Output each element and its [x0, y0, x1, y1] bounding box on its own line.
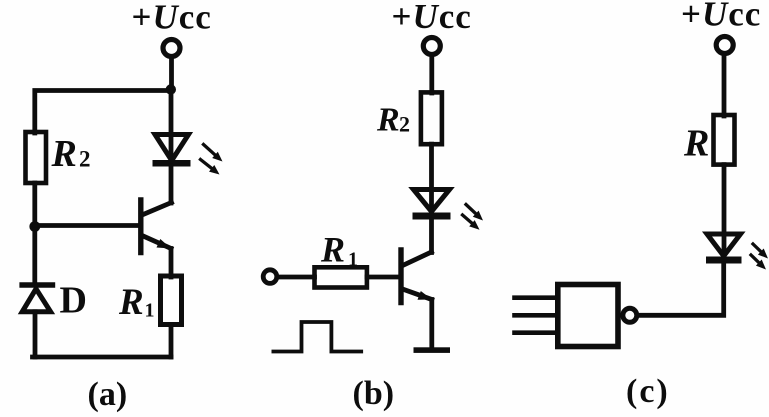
wire top rail (a)	[35, 91, 171, 134]
gate input pin 1 (c)	[515, 295, 558, 300]
svg-text:R: R	[683, 123, 709, 165]
light emission arrows (b)	[463, 205, 484, 230]
label R (c)	[683, 123, 709, 165]
wire diode to bottom rail (a)	[33, 312, 38, 357]
ground (b)	[414, 347, 451, 353]
gate input pin 2 (c)	[515, 313, 558, 318]
wire terminal to node A	[169, 57, 174, 90]
power terminal +Ucc (b)	[423, 38, 440, 55]
input terminal (b)	[263, 270, 277, 284]
wire terminal to R (c)	[722, 54, 727, 116]
svg-text:(c): (c)	[626, 373, 670, 410]
label R1 (b)	[320, 230, 358, 271]
transistor Q (b)	[401, 250, 432, 303]
label R2 (b)	[376, 102, 410, 139]
resistor R1 (b)	[315, 267, 367, 287]
light emission arrows (a)	[201, 145, 223, 175]
svg-text:D: D	[60, 280, 87, 322]
wire R2 to LED (b)	[429, 144, 434, 212]
wire input terminal to R1 (b)	[279, 275, 315, 280]
diode D (a)	[22, 285, 52, 312]
svg-text:(a): (a)	[88, 376, 128, 413]
power terminal +Ucc (c)	[716, 37, 733, 54]
resistor R2 (b)	[421, 92, 442, 144]
power label +Ucc (c)	[681, 0, 761, 34]
wire emitter to ground (b)	[429, 300, 434, 348]
gate input pin 3 (c)	[515, 330, 558, 335]
light emission arrows (c)	[751, 244, 768, 270]
power label +Ucc (b)	[392, 0, 472, 36]
collector diagonal (a)	[142, 203, 172, 216]
svg-text:R: R	[320, 230, 345, 270]
svg-text:(b): (b)	[353, 375, 395, 412]
LED (a)	[153, 135, 191, 167]
collector diagonal (b)	[403, 252, 432, 266]
transistor Q (a)	[35, 200, 172, 253]
wire base node to diode (a)	[32, 227, 37, 283]
svg-text:1: 1	[348, 249, 358, 271]
resistor R1 (a)	[161, 276, 182, 325]
resistor R (c)	[714, 115, 735, 165]
caption (c)	[626, 373, 670, 410]
wire R to LED (c)	[722, 165, 727, 256]
svg-text:2: 2	[399, 112, 410, 137]
power label +Ucc (a)	[132, 0, 212, 37]
wire emitter to R1 (a)	[169, 249, 174, 278]
base bar (b)	[398, 250, 403, 303]
label D	[60, 280, 87, 322]
power terminal +Ucc (a)	[163, 40, 180, 57]
wire terminal to R2 (b)	[429, 55, 434, 93]
wire node A to LED (a)	[169, 90, 174, 160]
wire LED to collector (b)	[429, 220, 434, 253]
wire bottom rail (a)	[33, 355, 172, 360]
label R2 (a)	[51, 133, 91, 175]
wire R2 to base node (a)	[32, 183, 37, 227]
base bar (a)	[138, 200, 143, 253]
base wire (a)	[35, 223, 139, 228]
svg-text:+Ucc: +Ucc	[681, 0, 761, 34]
gate U1 inverter bubble (c)	[623, 308, 637, 322]
node junction base (a)	[29, 221, 40, 232]
pulse waveform symbol (b)	[273, 322, 361, 352]
svg-text:2: 2	[79, 147, 91, 172]
caption (b)	[353, 375, 395, 412]
resistor R2 (a)	[26, 132, 47, 183]
gate U1 body (c)	[558, 285, 618, 347]
emitter diagonal with arrow (b)	[403, 289, 432, 300]
wire LED to output node (c)	[639, 264, 724, 316]
label R1 (a)	[118, 282, 155, 323]
svg-text:R: R	[51, 133, 77, 175]
LED (b)	[413, 190, 451, 220]
emitter diagonal with arrow (a)	[142, 236, 171, 249]
svg-text:R: R	[118, 282, 144, 323]
wire R1 to base (b)	[367, 275, 399, 280]
wire LED to collector (a)	[169, 166, 174, 203]
svg-text:+Ucc: +Ucc	[392, 0, 472, 36]
node junction top (a)	[166, 84, 176, 94]
svg-text:+Ucc: +Ucc	[132, 0, 212, 37]
svg-text:1: 1	[145, 300, 155, 322]
caption (a)	[88, 376, 128, 413]
wire R1 to bottom rail (a)	[169, 325, 174, 358]
svg-text:R: R	[376, 102, 400, 139]
LED (c)	[706, 234, 742, 264]
